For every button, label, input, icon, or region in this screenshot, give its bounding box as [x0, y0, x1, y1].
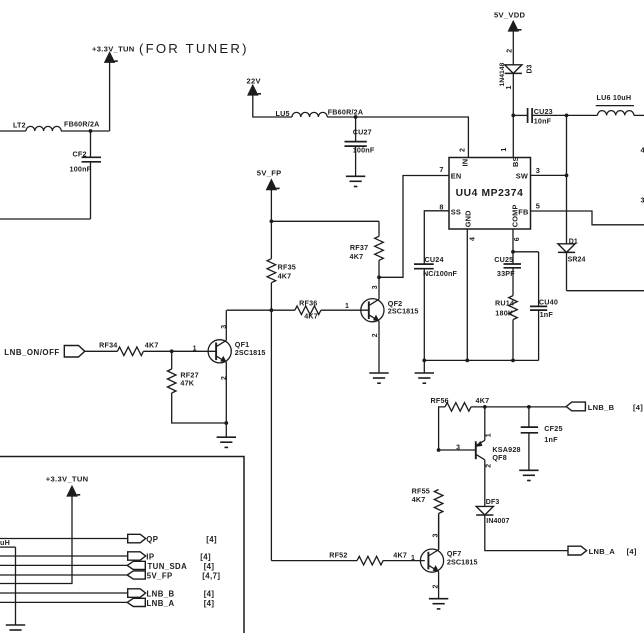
node base-line junction [270, 308, 274, 312]
svg-text:1N4148: 1N4148 [499, 62, 506, 86]
wire to left edge [0, 218, 91, 220]
node CU23/LU6/SW junction [565, 114, 569, 118]
ground QF7 [429, 598, 448, 600]
transistor QF8 KSA928 [475, 441, 477, 459]
svg-text:RF34: RF34 [99, 341, 117, 350]
wire LNB_B net [0, 592, 128, 594]
svg-text:CU23: CU23 [534, 107, 553, 116]
wire TUN_SDA net [0, 564, 127, 566]
svg-text:CU25: CU25 [494, 255, 513, 264]
svg-text:1nF: 1nF [544, 435, 558, 444]
svg-text:4: 4 [469, 237, 476, 241]
svg-text:1: 1 [485, 433, 492, 437]
wire IP net [0, 555, 128, 557]
svg-text:3: 3 [641, 196, 644, 205]
svg-text:10nF: 10nF [534, 116, 552, 125]
svg-text:8: 8 [439, 202, 443, 211]
svg-text:1: 1 [345, 303, 349, 310]
capacitor CF2 100nF [89, 129, 93, 133]
node BS/D3/CU23 junction [511, 114, 515, 118]
svg-text:LU6 10uH: LU6 10uH [597, 93, 632, 102]
node 5V_FP/RF37 junction [270, 219, 274, 223]
svg-text:[4]: [4] [627, 547, 637, 556]
wire SW node down to D1 [566, 115, 568, 243]
resistor RF37 4K7 [378, 221, 380, 236]
resistor RF52 4K7 [271, 560, 357, 562]
inductor LU5 FB60R/2A [292, 112, 327, 117]
ground bus under IC [424, 359, 538, 361]
svg-text:BS: BS [511, 156, 520, 167]
svg-text:FB60R/2A: FB60R/2A [328, 108, 364, 117]
svg-text:5V_FP: 5V_FP [257, 169, 282, 178]
svg-text:4K7: 4K7 [304, 312, 318, 321]
svg-text:LNB_A: LNB_A [147, 599, 175, 608]
svg-text:6: 6 [514, 237, 521, 241]
svg-text:2SC1815: 2SC1815 [388, 307, 419, 316]
capacitor CU23 10nF [527, 108, 529, 123]
svg-text:SW: SW [516, 172, 528, 181]
node RF34/RF27 junction [170, 349, 174, 353]
wire QP net [0, 538, 128, 540]
port LNB_B [4] (right) [566, 402, 585, 411]
inductor LT2 FB60R/2A [26, 126, 61, 131]
wire QF7 emitter [438, 572, 440, 599]
capacitor CU40 1nF [538, 252, 540, 306]
svg-text:4: 4 [641, 146, 644, 155]
svg-text:GND: GND [464, 210, 473, 227]
resistor RF35 4K7 [267, 259, 276, 283]
svg-text:4K7: 4K7 [393, 550, 407, 559]
capacitor CF25 1nF [527, 405, 531, 409]
svg-text:3: 3 [372, 285, 379, 289]
svg-text:DF3: DF3 [486, 499, 500, 506]
svg-text:TUN_SDA: TUN_SDA [148, 562, 188, 571]
tuner block box [0, 457, 244, 633]
svg-text:uH: uH [0, 538, 10, 547]
svg-text:[4]: [4] [204, 590, 215, 599]
svg-text:LNB_ON/OFF: LNB_ON/OFF [4, 348, 59, 357]
svg-text:+3.3V_TUN: +3.3V_TUN [92, 45, 135, 54]
svg-text:IN: IN [460, 159, 469, 167]
port 5V_FP [4,7] [127, 571, 145, 579]
svg-text:[4,7]: [4,7] [202, 572, 220, 581]
ground QF2 [369, 372, 388, 374]
svg-text:CF2: CF2 [73, 149, 87, 158]
svg-text:100nF: 100nF [70, 165, 92, 174]
svg-text:D3: D3 [526, 64, 533, 73]
svg-text:LNB_B: LNB_B [147, 590, 175, 599]
svg-text:[4]: [4] [206, 535, 217, 544]
svg-text:QF8: QF8 [492, 453, 507, 462]
svg-text:180K: 180K [495, 309, 514, 318]
svg-text:2: 2 [486, 464, 493, 468]
svg-text:FB60R/2A: FB60R/2A [64, 119, 100, 128]
svg-text:2: 2 [372, 333, 379, 337]
svg-text:7: 7 [439, 165, 443, 174]
svg-text:(FOR TUNER): (FOR TUNER) [139, 41, 249, 56]
svg-text:SS: SS [451, 207, 461, 216]
resistor RF27 47K [171, 351, 173, 369]
wire LNB_A net [0, 601, 127, 603]
port QP [4] [128, 534, 146, 543]
op-amp U1: IC UU4 MP2374 box [449, 158, 531, 230]
wire QF1 emitter [225, 362, 227, 437]
svg-text:[4]: [4] [200, 552, 211, 561]
svg-text:100nF: 100nF [353, 145, 375, 154]
svg-text:1nF: 1nF [540, 310, 554, 319]
port LNB_B [4] (box) [128, 589, 146, 598]
wire 5V_FP net [0, 574, 127, 576]
svg-text:LT2: LT2 [13, 121, 26, 130]
svg-text:RU14: RU14 [495, 298, 514, 307]
port IP [4] [128, 552, 146, 560]
svg-text:5V_FP: 5V_FP [147, 572, 173, 581]
svg-text:RF52: RF52 [329, 550, 347, 559]
svg-text:[4]: [4] [204, 599, 215, 608]
wire D1 to right edge [567, 290, 644, 292]
svg-text:CU24: CU24 [425, 255, 444, 264]
wire LU5 to IN pin [327, 117, 468, 158]
svg-text:5V_VDD: 5V_VDD [494, 10, 526, 19]
svg-text:4K7: 4K7 [412, 495, 426, 504]
ground CF25 [519, 469, 538, 471]
svg-text:IP: IP [146, 552, 154, 561]
svg-text:2SC1815: 2SC1815 [235, 348, 266, 357]
svg-text:3: 3 [456, 444, 460, 451]
svg-text:1: 1 [193, 345, 197, 352]
svg-text:2: 2 [506, 49, 513, 53]
svg-text:EN: EN [451, 171, 462, 180]
ground bus symbol [415, 372, 434, 374]
svg-text:2SC1815: 2SC1815 [447, 557, 478, 566]
wire net +3.3V_TUN rail [0, 130, 26, 132]
svg-text:1: 1 [506, 86, 513, 90]
svg-text:47K: 47K [180, 378, 194, 387]
capacitor CU27 100nF [354, 115, 358, 119]
wire QF1 collector [225, 310, 227, 340]
svg-text:CU27: CU27 [353, 127, 372, 136]
port LNB_A [4] (right) [568, 546, 587, 555]
svg-text:IN4007: IN4007 [486, 518, 509, 525]
wire tuner gnd [15, 547, 17, 625]
node QF8 collector tap [483, 405, 487, 409]
svg-text:4K7: 4K7 [350, 252, 364, 261]
svg-text:4K7: 4K7 [476, 396, 490, 405]
svg-text:22V: 22V [247, 76, 262, 85]
svg-text:LNB_A: LNB_A [589, 547, 616, 556]
port TUN_SDA [4] [127, 561, 145, 569]
svg-text:UU4 MP2374: UU4 MP2374 [456, 188, 524, 199]
ground QF1 [217, 436, 236, 438]
svg-text:LNB_B: LNB_B [588, 403, 615, 412]
ground tuner [6, 624, 25, 626]
svg-text:CF25: CF25 [544, 424, 562, 433]
svg-text:1: 1 [411, 555, 415, 562]
svg-text:QP: QP [146, 535, 158, 544]
port LNB_A [4] (box) [127, 598, 145, 606]
svg-text:4K7: 4K7 [145, 341, 159, 350]
svg-text:2: 2 [460, 148, 467, 152]
wire QF7 collector [438, 514, 440, 550]
svg-text:[4]: [4] [204, 562, 215, 571]
node RF37/QF2/EN junction [377, 275, 381, 279]
svg-text:SR24: SR24 [568, 256, 586, 263]
svg-text:LU5: LU5 [276, 109, 290, 118]
svg-text:COMP: COMP [510, 204, 519, 227]
ground CU27 [346, 175, 365, 177]
node QF8 base junction [437, 448, 441, 452]
svg-text:4K7: 4K7 [278, 272, 292, 281]
svg-text:[4]: [4] [633, 403, 643, 412]
svg-text:FB: FB [518, 208, 528, 217]
svg-text:RF37: RF37 [350, 243, 368, 252]
svg-text:5: 5 [536, 202, 540, 211]
svg-text:RF35: RF35 [278, 263, 296, 272]
svg-text:3: 3 [536, 166, 540, 175]
transistor QF7 2SC1815 [420, 549, 443, 572]
svg-text:CU40: CU40 [539, 297, 558, 306]
svg-text:NC/100nF: NC/100nF [423, 269, 457, 278]
svg-text:1: 1 [501, 148, 508, 152]
svg-text:+3.3V_TUN: +3.3V_TUN [46, 474, 89, 483]
node COMP junction [511, 250, 515, 254]
